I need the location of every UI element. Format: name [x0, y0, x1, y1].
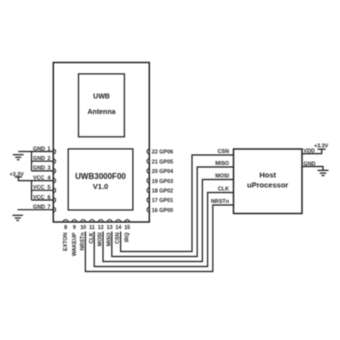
svg-text:Antenna: Antenna — [88, 109, 116, 116]
pin 16 GP00 — [147, 207, 173, 214]
svg-text:+3.3V: +3.3V — [314, 144, 329, 150]
pin 18 GP02 — [147, 188, 173, 195]
svg-text:17 GP01: 17 GP01 — [152, 198, 173, 204]
svg-text:V1.0: V1.0 — [93, 182, 108, 191]
wire CSN net pin14 to host — [121, 155, 234, 252]
svg-text:IRQ: IRQ — [125, 233, 131, 243]
svg-text:16 GP00: 16 GP00 — [152, 208, 173, 214]
ground symbol top left — [13, 155, 24, 160]
pin 14 CSN — [115, 220, 121, 244]
ground symbol right — [318, 170, 329, 175]
wire MOSI net pin12 to host — [103, 180, 234, 262]
wire VDD to +3.3V — [302, 149, 322, 153]
pin 9 WAKEUP — [72, 220, 78, 257]
svg-text:21 GP05: 21 GP05 — [152, 159, 173, 165]
pin 19 GP03 — [147, 178, 173, 185]
svg-text:UWB: UWB — [93, 93, 110, 100]
wire GND to ground — [302, 167, 323, 171]
svg-text:18 GP02: 18 GP02 — [152, 189, 173, 195]
pin 10 NRSTn — [80, 220, 86, 251]
svg-text:+3.3V: +3.3V — [10, 172, 25, 178]
pin 13 MISO — [106, 220, 112, 247]
pin 12 MOSI — [98, 220, 104, 247]
pin 3 GND — [33, 166, 56, 174]
+3.3V supply left — [10, 172, 25, 178]
svg-text:WAKEUP: WAKEUP — [72, 232, 78, 256]
wire NRSTn net pin10 to host — [85, 205, 233, 272]
pin 8 EXTON — [63, 220, 69, 251]
UWB antenna block — [79, 74, 125, 137]
pin 15 IRQ — [124, 220, 130, 242]
pin 7 GND — [33, 205, 56, 213]
module U1 outline UWB3000F00 — [53, 63, 149, 223]
svg-text:8: 8 — [64, 225, 67, 231]
svg-text:19 GP03: 19 GP03 — [152, 179, 173, 185]
svg-text:Host: Host — [259, 171, 276, 180]
chip core block UWB3000F00 V1.0 — [68, 149, 133, 210]
svg-text:NRSTn: NRSTn — [211, 199, 229, 205]
pin 21 GP05 — [147, 159, 173, 166]
svg-text:13: 13 — [107, 225, 113, 231]
svg-text:uProcessor: uProcessor — [247, 181, 288, 190]
wire MISO net pin13 to host — [112, 167, 234, 257]
wire GND pins 1-3 bus — [18, 152, 53, 171]
pin 6 VCC — [33, 195, 56, 203]
svg-text:EXTON: EXTON — [63, 232, 69, 251]
ground symbol bottom left — [13, 215, 24, 220]
svg-text:14: 14 — [115, 225, 121, 231]
svg-text:UWB3000F00: UWB3000F00 — [75, 172, 126, 181]
svg-text:CSN: CSN — [218, 149, 229, 155]
svg-text:10: 10 — [80, 225, 86, 231]
svg-text:12: 12 — [98, 225, 104, 231]
svg-text:CLK: CLK — [218, 187, 229, 193]
svg-text:20 GP04: 20 GP04 — [152, 169, 173, 175]
pin 1 GND — [33, 146, 56, 154]
pin 5 VCC — [33, 185, 56, 193]
wire VCC pins 4-6 bus — [18, 177, 53, 200]
svg-text:MOSI: MOSI — [215, 174, 229, 180]
svg-text:15: 15 — [124, 225, 130, 231]
wire GND pin 7 — [18, 209, 54, 211]
+3.3V supply right — [314, 144, 329, 150]
svg-text:MISO: MISO — [215, 161, 229, 167]
svg-text:22 GP06: 22 GP06 — [152, 150, 173, 156]
pin 2 GND — [33, 156, 56, 164]
pin 20 GP04 — [147, 169, 173, 176]
pin 17 GP01 — [147, 198, 173, 205]
pin 4 VCC — [33, 175, 56, 183]
pin 22 GP06 — [147, 149, 173, 156]
wire CLK net pin11 to host — [94, 193, 233, 267]
host uProcessor U2 — [234, 149, 303, 214]
svg-text:9: 9 — [73, 225, 76, 231]
svg-text:11: 11 — [89, 225, 95, 231]
pin 11 CLK — [89, 220, 95, 244]
